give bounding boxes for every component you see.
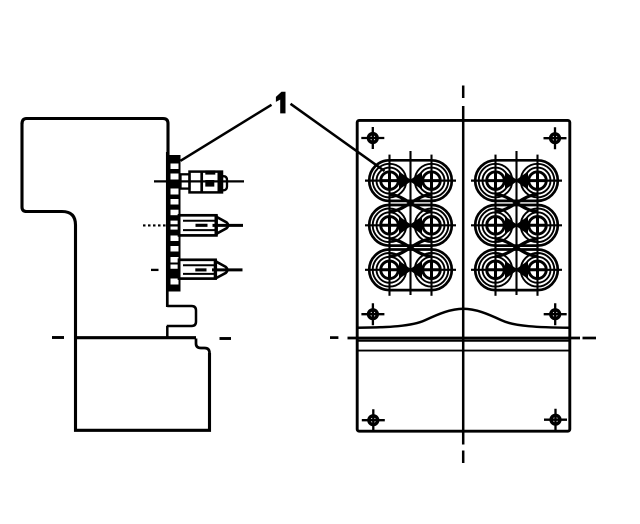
stud 1 divider bbox=[200, 172, 203, 193]
stud 3 centerline bbox=[167, 269, 180, 271]
stud 1 neck bbox=[181, 174, 190, 188]
pod row1 left bbox=[365, 155, 456, 207]
plate outline bbox=[357, 120, 570, 431]
stud 3 cone bbox=[216, 261, 228, 278]
mount hole mid-left bbox=[361, 303, 384, 325]
mount hole bottom-right bbox=[544, 409, 567, 431]
stud 1 centerline bbox=[154, 180, 244, 182]
chain line right dash bbox=[220, 337, 232, 340]
mount hole mid-right bbox=[544, 303, 567, 325]
mount hole top-left bbox=[361, 127, 384, 149]
stud 3 hidden dash bbox=[195, 268, 206, 271]
stud 2 cone bbox=[216, 217, 228, 234]
stud 1 nose bbox=[222, 176, 227, 190]
left column centerline bbox=[409, 151, 411, 295]
left view left edge and step bbox=[22, 123, 76, 338]
pod row2 right bbox=[471, 199, 562, 251]
stud 2 hidden dash bbox=[196, 224, 208, 227]
stud 2 body bbox=[179, 215, 216, 235]
horizontal chain line bbox=[348, 337, 581, 340]
waist connector left col upper bbox=[390, 195, 432, 212]
stud 1 body bbox=[190, 172, 223, 193]
stud 2 body right edge bbox=[214, 215, 217, 235]
horizontal chain line right dash bbox=[583, 337, 597, 340]
plate vertical centerline bottom dash bbox=[462, 451, 465, 464]
lower block left and bottom bbox=[76, 338, 210, 431]
leader line left bbox=[181, 105, 272, 161]
lower block top edge on chain line bbox=[76, 336, 197, 339]
stud 2 centerline dotted bbox=[143, 224, 167, 226]
waist connector right col upper bbox=[496, 195, 538, 212]
pod row3 right bbox=[471, 244, 562, 296]
plate joint line lower bbox=[357, 350, 570, 352]
stud 3 inner lines bbox=[183, 265, 216, 274]
lower block right step bbox=[196, 339, 210, 354]
stud 2 inner lines bbox=[183, 221, 216, 230]
hump curve bbox=[357, 309, 569, 328]
left view right edge upper bbox=[166, 152, 169, 307]
horizontal chain line left dash bbox=[330, 336, 338, 339]
stud 1 center blob bbox=[205, 180, 214, 187]
right column centerline bbox=[515, 151, 517, 295]
stud 3 centerline right bbox=[212, 268, 243, 271]
face strip bbox=[167, 155, 181, 292]
stud 3 body bbox=[179, 260, 216, 279]
mount hole bottom-left bbox=[362, 409, 385, 431]
pod row2 left bbox=[365, 199, 456, 251]
waist connector left col lower bbox=[390, 239, 432, 256]
plate joint line upper bbox=[357, 340, 570, 342]
left view main outline bbox=[22, 119, 168, 156]
stud 2 centerline bbox=[167, 224, 179, 226]
chain line left dash bbox=[52, 336, 64, 339]
stud 2 centerline right bbox=[213, 224, 244, 227]
label 1 bbox=[276, 92, 286, 114]
waist connector right col lower bbox=[496, 239, 538, 256]
stud 1 top blob bbox=[205, 170, 215, 174]
right edge below tab bbox=[166, 326, 169, 338]
stud 3 centerline left dash bbox=[151, 269, 159, 271]
plate vertical centerline bbox=[462, 106, 465, 445]
plate vertical centerline top dash bbox=[462, 86, 465, 99]
pod row1 right bbox=[471, 155, 562, 207]
tab on right edge bbox=[167, 306, 196, 326]
stud 1 right band bbox=[218, 172, 222, 193]
face strip windows bbox=[171, 164, 179, 285]
leader line right bbox=[291, 104, 385, 171]
mount hole top-right bbox=[544, 127, 567, 149]
pod row3 left bbox=[365, 244, 456, 296]
stud 3 body right edge bbox=[214, 260, 217, 279]
